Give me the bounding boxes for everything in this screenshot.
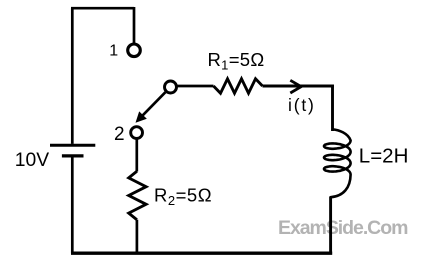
wire: pivot to R1 [177,85,214,88]
label R2=5ohm [154,185,212,209]
svg-text:R2=5Ω: R2=5Ω [154,185,212,209]
current arrow i(t) [290,80,301,93]
resistor R1 zigzag [214,79,263,93]
label R1=5ohm [208,49,265,73]
switch arm with arrow toward contact 2 [136,92,165,122]
label 1 [109,43,118,60]
svg-text:L=2H: L=2H [359,144,409,167]
switch contact terminal 2 [131,127,143,139]
watermark ExamSide.Com [278,217,408,239]
switch pivot terminal [165,81,177,93]
wire: battery - down to bottom wire [71,157,74,253]
label 2 [114,124,125,145]
svg-text:ExamSide.Com: ExamSide.Com [278,217,408,239]
resistor R2 zigzag [129,171,146,219]
svg-text:10V: 10V [15,150,49,171]
battery V1 top plate (long) [50,144,95,147]
label 10V [15,150,49,171]
battery V1 bottom plate (short) [62,154,84,157]
wire: top-left vertical (battery + to top) [71,8,74,144]
wire: inductor to bottom-right corner [329,197,332,254]
wire: contact 2 down to R2 [135,139,138,172]
wire: bottom horizontal [71,252,332,255]
svg-text:R1=5Ω: R1=5Ω [208,49,265,73]
label i(t) [288,95,316,115]
wire: right vertical down to inductor [331,85,334,131]
label L=2H [359,144,409,167]
wire: drop to switch contact 1 [133,7,136,43]
switch contact terminal 1 [128,44,141,57]
svg-text:i(t): i(t) [288,95,316,115]
wire: R1 to top-right corner [263,85,334,88]
wire: R2 to bottom wire [136,220,139,254]
wire: top horizontal [71,7,134,10]
inductor L1 coil [324,129,351,197]
svg-text:2: 2 [114,124,125,145]
svg-text:1: 1 [109,43,118,60]
